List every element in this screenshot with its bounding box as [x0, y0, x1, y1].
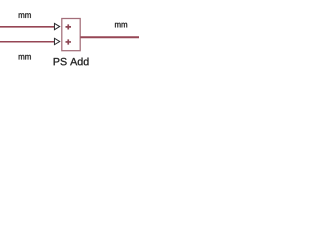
wire input 2 (physical signal line, unit mm)	[0, 41, 55, 43]
plus sign input 2	[66, 39, 72, 44]
wire output (physical signal line, unit mm)	[80, 36, 139, 38]
plus sign input 1	[66, 24, 72, 29]
label mm (input 1 unit)	[19, 13, 31, 18]
label mm (output unit)	[115, 23, 127, 28]
label mm (input 2 unit)	[19, 55, 31, 60]
port arrow input 2	[54, 38, 59, 44]
block U1 PS Add body	[62, 19, 80, 51]
label PS Add (block name)	[54, 58, 89, 66]
port arrow input 1	[54, 23, 59, 29]
wire input 1 (physical signal line, unit mm)	[0, 26, 55, 28]
